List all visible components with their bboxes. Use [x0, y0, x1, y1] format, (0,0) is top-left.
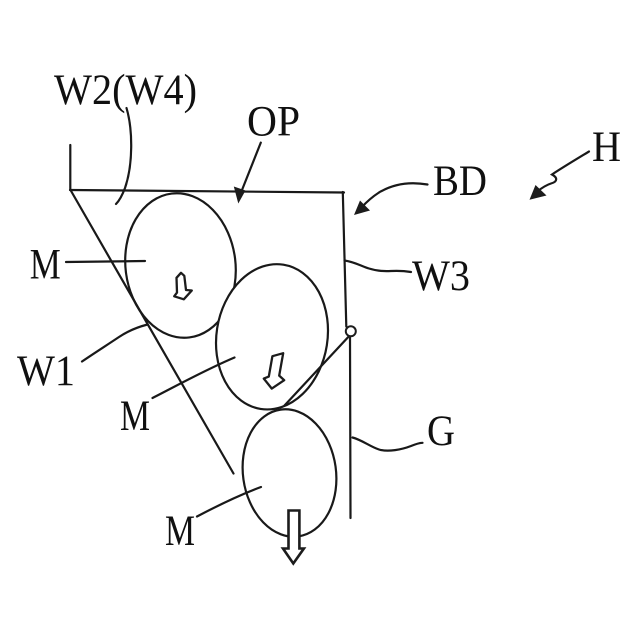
wire slant from pivot circle: [285, 337, 349, 406]
leader W1: [82, 325, 148, 362]
node pivot circle: [346, 326, 356, 336]
leader BD arrow line: [362, 183, 428, 207]
leader M2: [153, 358, 235, 399]
svg-text:W2(W4): W2(W4): [54, 67, 197, 114]
leader G: [353, 438, 423, 451]
svg-text:M: M: [165, 508, 195, 555]
leader M3: [197, 487, 261, 517]
svg-text:W1: W1: [17, 348, 75, 395]
svg-text:M: M: [30, 242, 61, 289]
leader W2(W4): [116, 108, 131, 204]
arrow small in M2: [264, 353, 284, 388]
leader H arrow line: [537, 152, 590, 193]
svg-text:H: H: [592, 124, 621, 171]
wire top horizontal line OP: [70, 190, 344, 193]
svg-text:OP: OP: [247, 99, 300, 146]
arrow small in M1: [174, 273, 192, 300]
wire hypotenuse W1: [71, 190, 234, 474]
ellipse M3 (workpiece bottom): [235, 403, 345, 543]
svg-text:W3: W3: [412, 253, 470, 300]
leader OP arrow line: [242, 143, 261, 190]
leader M1: [66, 261, 145, 262]
wire tick top-left vertical: [69, 145, 71, 190]
ellipse M1 (workpiece top-left): [117, 187, 244, 344]
svg-text:M: M: [120, 393, 150, 440]
ellipse M2 (workpiece middle): [206, 256, 338, 418]
svg-text:G: G: [427, 408, 455, 455]
svg-text:BD: BD: [433, 158, 487, 205]
wire right vertical lower G: [349, 336, 352, 518]
arrow big below M3: [283, 511, 304, 564]
arrowhead BD: [354, 201, 370, 216]
arrowhead H: [530, 185, 547, 200]
wire right vertical upper BD: [343, 192, 347, 327]
arrowhead OP: [234, 187, 246, 204]
leader W3: [345, 261, 412, 273]
